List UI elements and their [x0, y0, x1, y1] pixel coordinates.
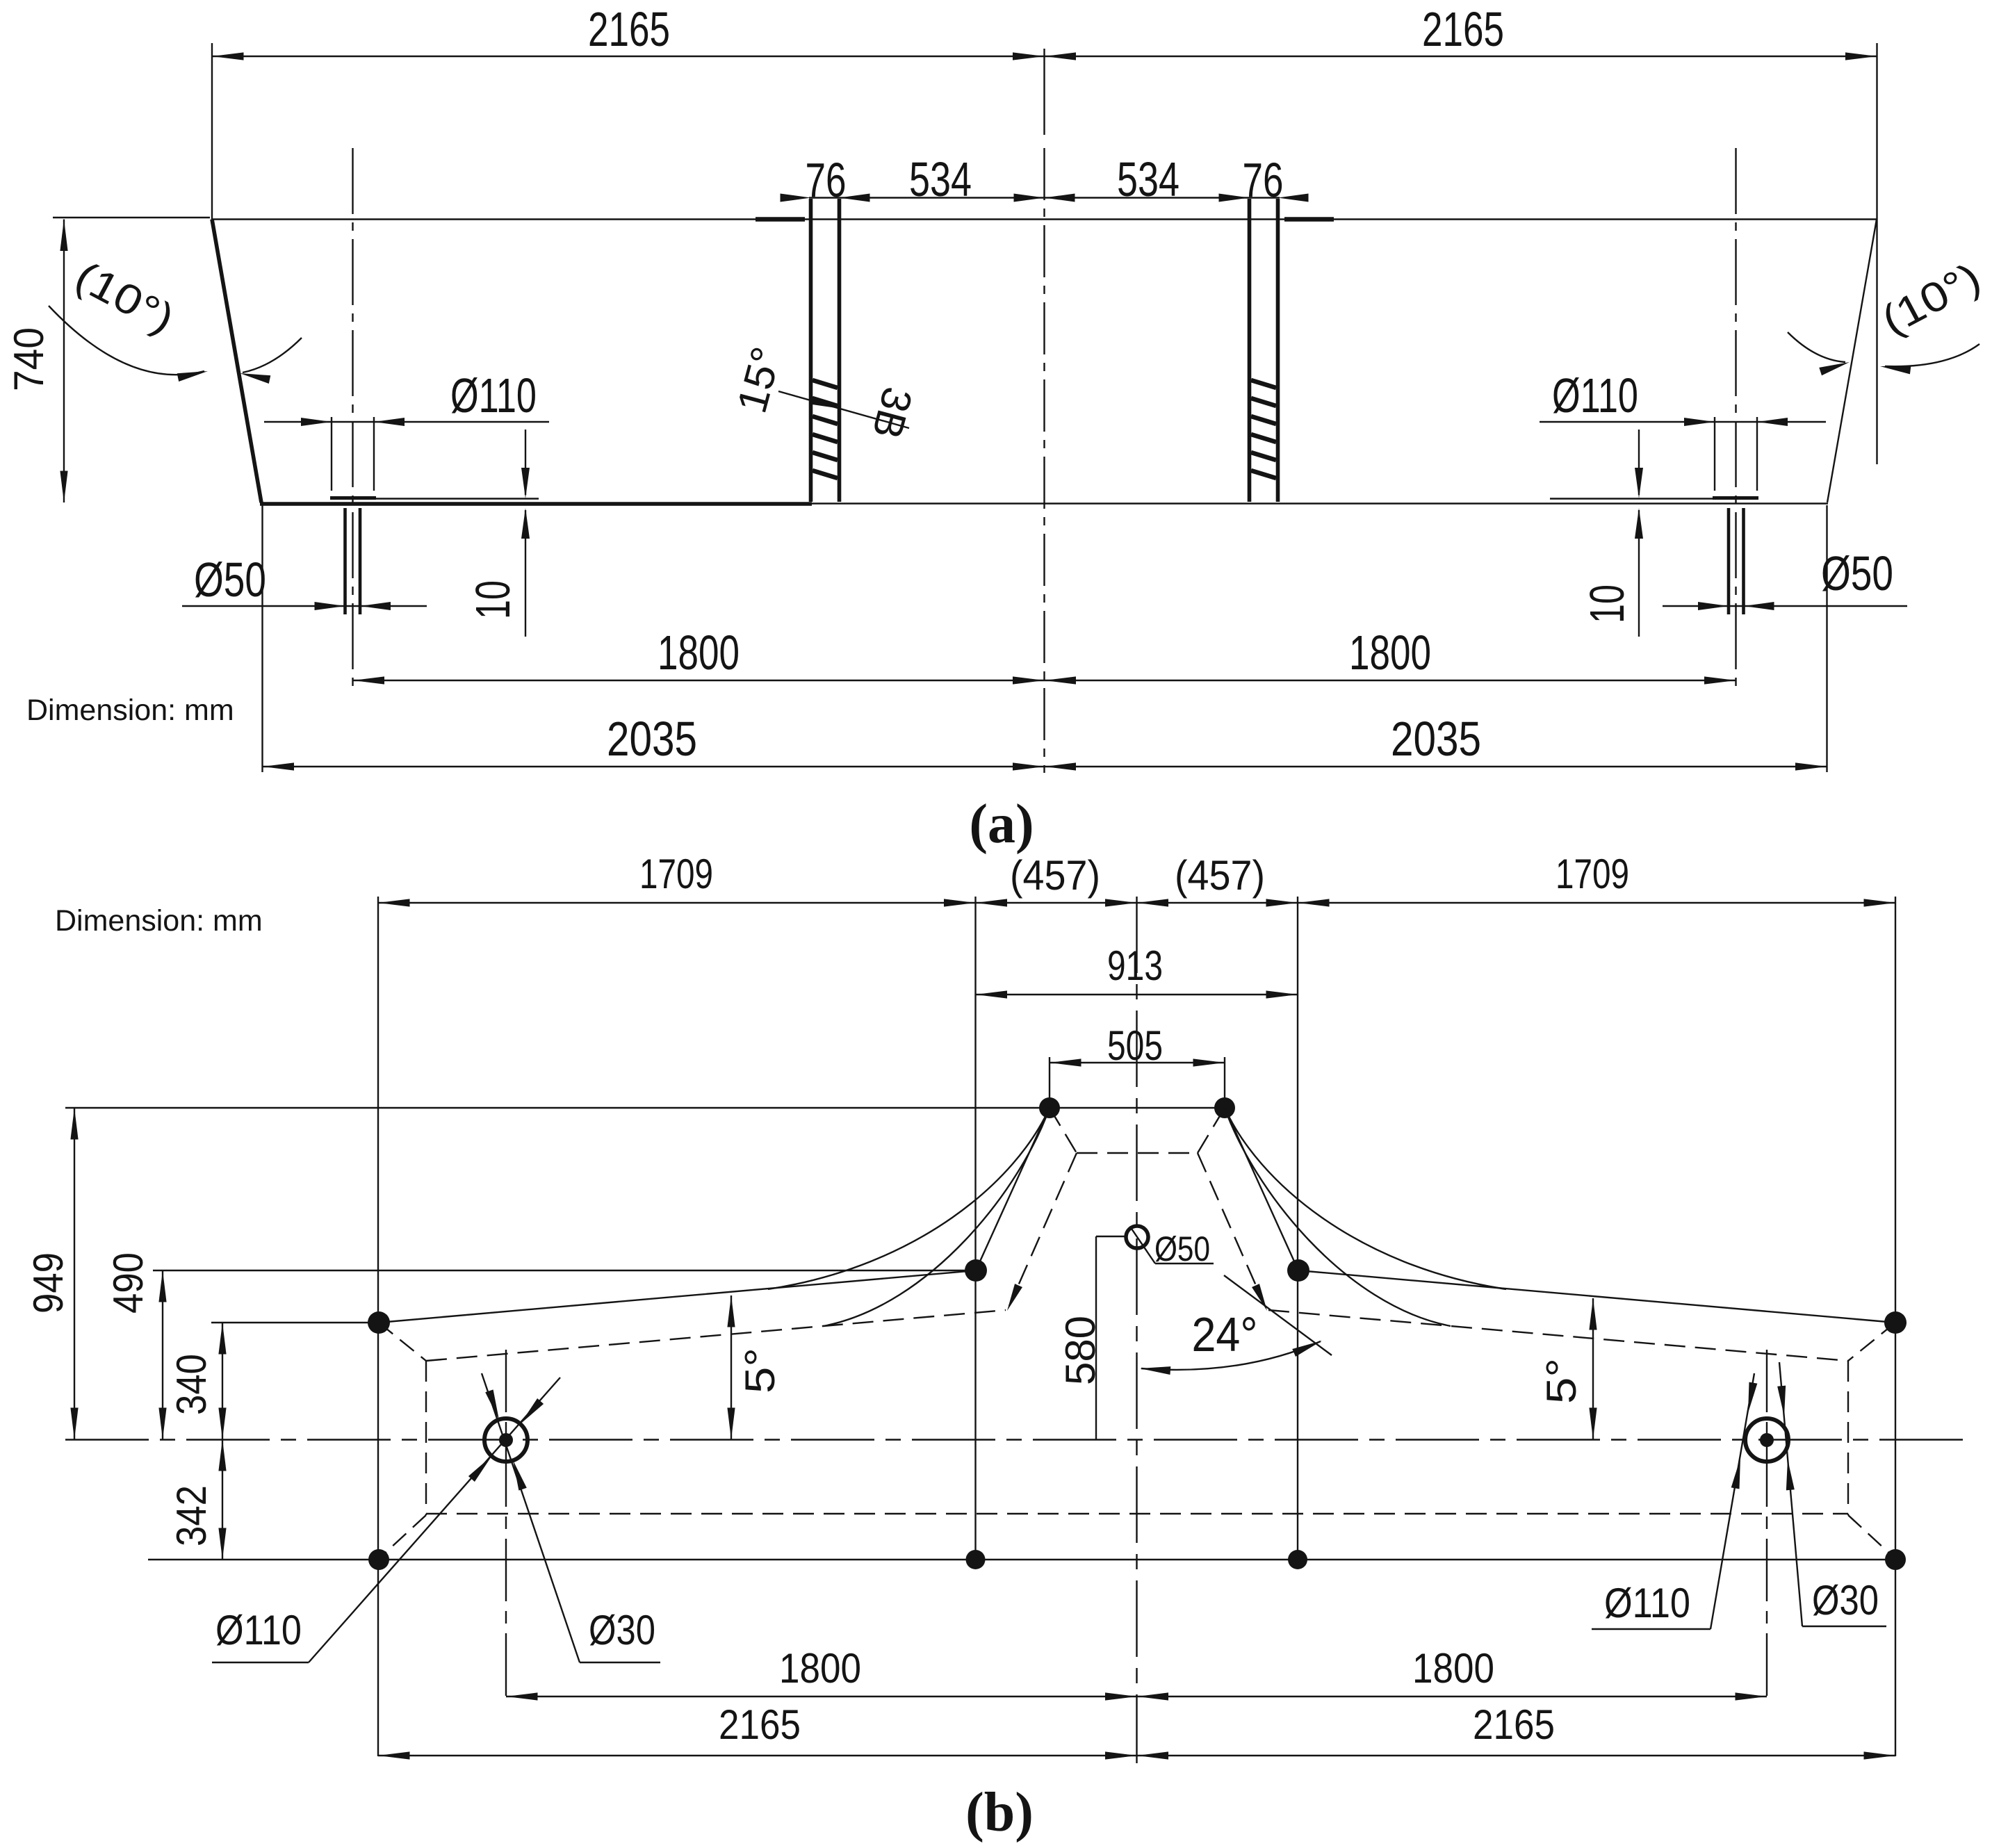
bottom node far left: [368, 1549, 389, 1570]
left angle leader arc outer: [49, 306, 204, 375]
svg-text:2165: 2165: [1422, 2, 1504, 56]
svg-text:1800: 1800: [1412, 1645, 1494, 1692]
dashed right vertical side: [1847, 1361, 1849, 1515]
dim 505 line: [1050, 1062, 1225, 1063]
left angle leader arrow at centerline: [177, 367, 209, 382]
svg-text:5°: 5°: [737, 1348, 783, 1393]
right o30 leader line: [1779, 1362, 1802, 1626]
right mid node: [1287, 1259, 1309, 1282]
24 deg reference line: [1224, 1275, 1332, 1355]
dim 342 line: [222, 1439, 223, 1560]
dim row top extension line inner left: [974, 897, 976, 1560]
dim 1709 right line: [1298, 902, 1895, 903]
dim 1800 fig b left line: [506, 1696, 1137, 1697]
dim 2165 top center extension line: [1043, 49, 1045, 135]
left post left wall: [809, 199, 813, 502]
top edge thick segment left of left post: [756, 217, 805, 222]
dim (457) right line: [1137, 902, 1298, 903]
dashed diagonal far left top: [379, 1323, 426, 1361]
left 5 deg top line: [379, 1270, 976, 1323]
svg-text:Ø110: Ø110: [1604, 1580, 1690, 1626]
svg-text:2035: 2035: [1391, 712, 1481, 766]
dim o50 left extension line: [261, 505, 263, 772]
dim (457) left line: [976, 902, 1137, 903]
svg-text:Ø110: Ø110: [450, 368, 537, 423]
svg-text:534: 534: [1117, 152, 1179, 206]
dim o50 right line: [1663, 605, 1907, 607]
dim 2165 fig b right line: [1137, 1755, 1896, 1756]
svg-text:76: 76: [1243, 153, 1284, 207]
label o110 left fig b underline: [212, 1662, 309, 1663]
svg-text:913: 913: [1107, 942, 1163, 989]
top reference line through hump top: [65, 1107, 1225, 1109]
right post right wall: [1276, 199, 1280, 502]
bottom reference line through bottom nodes: [148, 1559, 1895, 1560]
dashed hump steep side right: [1198, 1153, 1265, 1306]
svg-text:1800: 1800: [658, 625, 740, 680]
dashed hump top edge: [1077, 1152, 1198, 1154]
dim 10 right upper witness: [1638, 430, 1640, 495]
dim 2165 top left extension line: [211, 43, 213, 220]
dim 2165 fig b left line: [378, 1755, 1137, 1756]
ground line thin part: [812, 502, 1828, 504]
hump steep side left solid: [976, 1108, 1050, 1270]
dim 10 left lower witness: [525, 510, 526, 637]
dashed 5 deg line right: [1268, 1310, 1848, 1361]
dim 5 deg left arrow line: [730, 1295, 732, 1439]
dim row top extension line inner right: [1297, 897, 1298, 1560]
dim 1800 left line: [353, 680, 1045, 681]
right outer transition curve: [1225, 1108, 1506, 1289]
svg-text:5°: 5°: [1538, 1358, 1585, 1404]
svg-text:Ø50: Ø50: [1821, 546, 1893, 600]
right far node: [1884, 1311, 1907, 1334]
dim row top extension line far left: [377, 897, 379, 1756]
svg-text:1800: 1800: [779, 1645, 861, 1692]
dashed diagonal far right top: [1848, 1323, 1895, 1361]
left o110 leader line: [309, 1377, 560, 1662]
towing pin circle o50: [1126, 1226, 1148, 1248]
svg-text:(457): (457): [1175, 852, 1265, 899]
24 deg arc: [1141, 1341, 1321, 1370]
dim o110 right line: [1540, 421, 1826, 423]
svg-text:740: 740: [6, 327, 52, 391]
left post right wall: [838, 199, 842, 502]
left plate thick segment: [330, 496, 376, 500]
svg-text:1709: 1709: [639, 851, 713, 897]
dashed diagonal bottom right: [1848, 1515, 1893, 1557]
left slope wall (10 deg): [212, 220, 261, 503]
svg-text:340: 340: [168, 1354, 215, 1415]
dim 1800 fig b right line: [1137, 1696, 1768, 1697]
horizontal centerline fig b: [65, 1439, 1974, 1440]
dashed bottom line: [426, 1513, 1848, 1514]
dashed left vertical side: [425, 1361, 427, 1515]
dim 2035 left line: [263, 766, 1045, 767]
dim row top extension line far right: [1895, 897, 1896, 1756]
svg-text:Dimension: mm: Dimension: mm: [26, 694, 234, 727]
svg-text:1800: 1800: [1349, 625, 1431, 680]
label o30 left fig b underline: [580, 1662, 660, 1663]
svg-text:580: 580: [1057, 1316, 1104, 1385]
dim 949 line: [74, 1108, 75, 1439]
left far node: [368, 1311, 390, 1334]
left angle leader arrow at slope: [239, 369, 271, 384]
left wheel center dot: [499, 1433, 513, 1447]
dim o110 right extension lines: [1714, 417, 1715, 491]
right plate line thin: [1550, 498, 1758, 499]
right wheel circle: [1745, 1418, 1788, 1462]
left anchor rod lines o50: [343, 508, 347, 614]
dim o50 right extension line: [1826, 505, 1827, 772]
top edge line: [212, 218, 1877, 220]
svg-text:342: 342: [168, 1485, 215, 1546]
dim 505 extension lines: [1049, 1057, 1050, 1108]
left outer transition curve: [768, 1108, 1050, 1289]
right inner transition curve: [1225, 1108, 1451, 1326]
bottom node mid right: [1288, 1550, 1307, 1569]
svg-text:490: 490: [105, 1252, 152, 1314]
right angle leader arc inner: [1788, 332, 1845, 362]
top edge thick segment right of right post: [1284, 217, 1334, 222]
svg-text:2165: 2165: [719, 1701, 801, 1748]
svg-text:2165: 2165: [1473, 1701, 1555, 1748]
dim 534 center arrows: [1045, 194, 1075, 202]
left wheel circle: [484, 1418, 528, 1462]
left mid node: [965, 1259, 987, 1282]
dim 340 line: [222, 1323, 223, 1439]
right angle leader arrow at slope: [1819, 358, 1851, 375]
dim 1709 left line: [378, 902, 976, 903]
towing pin leader slash: [1132, 1229, 1155, 1264]
dashed diagonal bottom left: [381, 1515, 426, 1557]
svg-text:76: 76: [806, 153, 847, 207]
centerline vertical fig b: [1136, 897, 1137, 1763]
left angle leader arc inner: [243, 338, 302, 373]
svg-text:Ø50: Ø50: [194, 553, 266, 607]
svg-text:10: 10: [1580, 584, 1634, 623]
left o30 leader line: [482, 1373, 580, 1662]
svg-text:(b): (b): [965, 1782, 1034, 1843]
left wheel centerline: [352, 148, 353, 692]
dim 10 left upper witness: [525, 430, 526, 495]
svg-text:Ø50: Ø50: [1154, 1229, 1210, 1268]
label o110 right fig b underline: [1592, 1628, 1711, 1630]
dashed hump top left diagonal: [1050, 1108, 1077, 1153]
right slope wall (10 deg): [1827, 220, 1877, 503]
right 5 deg top line: [1298, 1270, 1895, 1323]
right wheel centerline: [1735, 148, 1736, 692]
hump top left node: [1039, 1097, 1060, 1118]
right plate thick segment: [1713, 496, 1758, 500]
dim o50 left line: [182, 605, 427, 607]
right wheel center dot: [1760, 1433, 1774, 1447]
svg-text:10: 10: [466, 580, 520, 619]
label o30 right fig b underline: [1802, 1626, 1886, 1627]
dim 2035 right line: [1045, 766, 1827, 767]
dim 740 extension line top: [53, 217, 210, 218]
left wheel centerline vertical fig b: [505, 1350, 507, 1702]
svg-text:(a): (a): [969, 794, 1034, 855]
dim 913 line: [976, 994, 1298, 995]
dim 490 extension line: [153, 1270, 976, 1271]
dim 76-534 line above posts: [809, 197, 1280, 198]
towing pin label underline: [1155, 1263, 1214, 1264]
svg-text:534: 534: [909, 152, 972, 206]
svg-text:2165: 2165: [588, 2, 670, 56]
580 reference vertical line: [1095, 1236, 1097, 1439]
dim 10 right lower witness: [1638, 510, 1640, 637]
hump steep side right solid: [1225, 1108, 1298, 1270]
svg-text:24°: 24°: [1192, 1307, 1258, 1362]
left plate line thin: [331, 498, 539, 499]
right wheel centerline vertical fig b: [1766, 1350, 1768, 1702]
right angle leader arrow at centerline: [1879, 362, 1911, 374]
580 reference hook horizontal: [1096, 1236, 1127, 1237]
right post hatch stripes: [1251, 380, 1276, 478]
dim 2165 top right line: [1045, 56, 1877, 57]
svg-text:Ø110: Ø110: [1552, 368, 1638, 423]
bottom node mid left: [966, 1550, 986, 1569]
dim 490 line: [162, 1270, 163, 1439]
right post left wall: [1248, 199, 1252, 502]
dim 2165 top left line: [212, 56, 1045, 57]
dim 740 line: [63, 220, 65, 503]
svg-text:Dimension: mm: Dimension: mm: [55, 904, 263, 938]
svg-text:Ø110: Ø110: [215, 1607, 302, 1653]
dim 1800 right line: [1045, 680, 1736, 681]
svg-text:1709: 1709: [1556, 851, 1629, 897]
leader 15 deg: [778, 391, 909, 428]
right angle leader arc outer: [1885, 344, 1979, 366]
right o110 leader line: [1711, 1373, 1754, 1629]
left post hatch stripes: [813, 380, 838, 478]
dashed 5 deg line left: [426, 1310, 1006, 1361]
dim 76 left arrows: [781, 194, 811, 202]
dim 5 deg right arrow line: [1592, 1298, 1594, 1439]
vehicle centerline fig a: [1043, 148, 1045, 773]
hump top right node: [1214, 1097, 1235, 1118]
dim o110 left extension lines: [331, 417, 332, 491]
svg-text:Ø30: Ø30: [1812, 1577, 1879, 1624]
svg-text:(457): (457): [1010, 852, 1100, 899]
svg-text:949: 949: [25, 1252, 72, 1314]
dashed hump steep side left: [1009, 1153, 1077, 1306]
left inner transition curve: [824, 1108, 1050, 1326]
bottom node far right: [1885, 1549, 1906, 1570]
svg-text:2035: 2035: [607, 712, 697, 766]
svg-text:505: 505: [1107, 1022, 1163, 1069]
dim 340 extension line: [211, 1322, 379, 1323]
right anchor rod lines o50: [1727, 508, 1731, 614]
leader 15 deg arrow: [810, 396, 842, 413]
svg-text:Ø30: Ø30: [589, 1607, 655, 1653]
ground line thick part: [260, 502, 812, 506]
dim 2165 top right extension line: [1876, 43, 1877, 464]
dim 76 right arrows: [1219, 194, 1250, 202]
dim o110 left line: [264, 421, 549, 423]
dashed hump top right diagonal: [1198, 1108, 1225, 1153]
